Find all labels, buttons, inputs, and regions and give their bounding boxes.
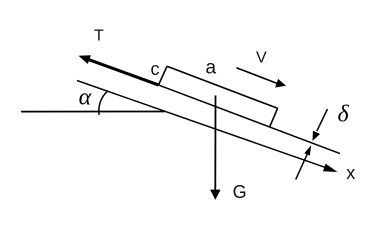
tension T arrowhead <box>79 55 91 64</box>
incline surface line (thin part, under and right of block) <box>158 85 340 154</box>
svg-text:G: G <box>233 182 247 202</box>
angle alpha arc <box>99 91 108 115</box>
block top edge <box>167 66 278 108</box>
gravity G arrow shaft <box>214 96 216 192</box>
velocity V arrow shaft <box>236 68 278 84</box>
ground horizontal line <box>21 111 165 113</box>
gravity G arrowhead <box>210 190 221 200</box>
delta lower leader line <box>296 154 307 179</box>
delta upper leader line <box>317 109 328 131</box>
svg-text:δ: δ <box>338 102 350 128</box>
svg-text:T: T <box>94 27 104 44</box>
delta upper arrowhead (pointing down-left) <box>313 131 321 141</box>
block right edge <box>270 108 278 126</box>
block left edge <box>159 66 168 85</box>
svg-text:V: V <box>256 50 267 67</box>
velocity V arrowhead <box>275 79 286 88</box>
x-axis arrowhead <box>323 164 338 172</box>
svg-text:α: α <box>79 84 92 110</box>
svg-text:c: c <box>151 59 160 79</box>
svg-text:a: a <box>206 58 217 79</box>
delta lower arrowhead (pointing up-right) <box>304 145 311 155</box>
incline lower line (x-axis line) <box>77 81 326 168</box>
tension T arrow shaft (thick, along surface extended) <box>87 59 159 85</box>
svg-text:x: x <box>346 163 355 183</box>
